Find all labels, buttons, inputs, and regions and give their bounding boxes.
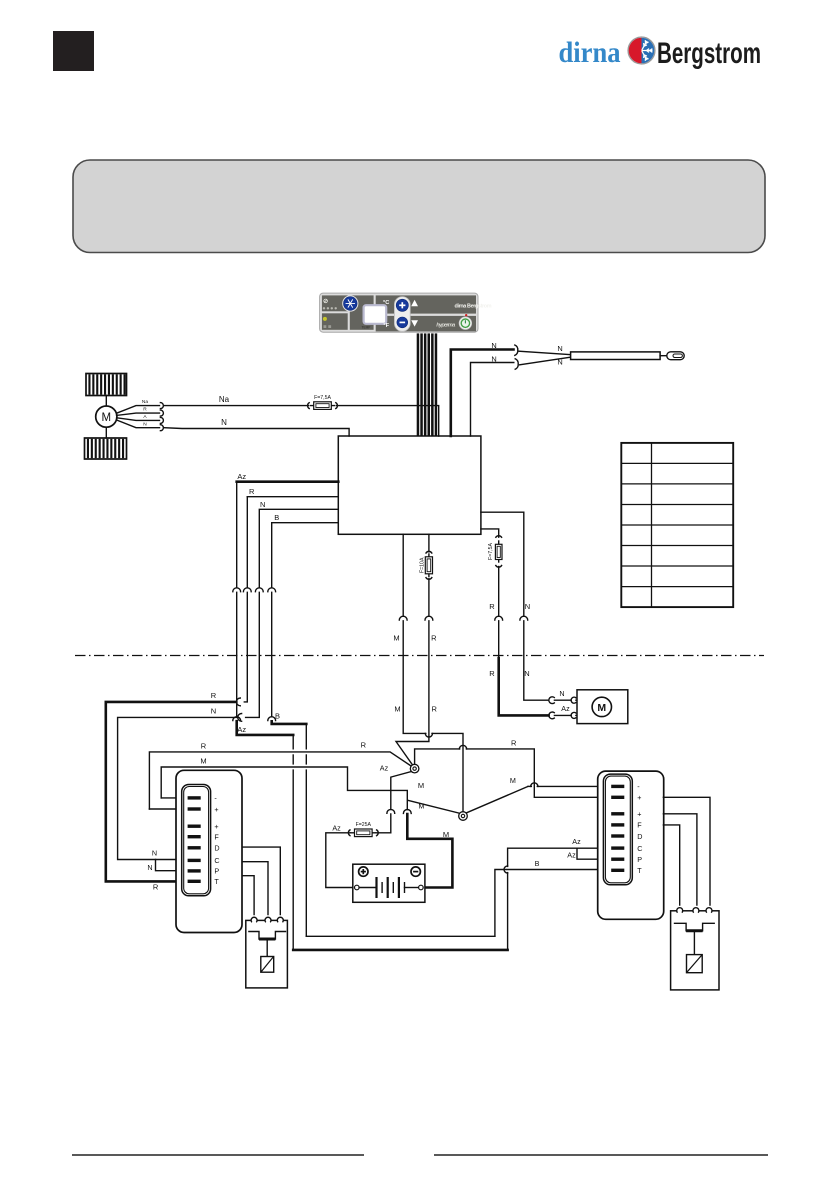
svg-text:F=25A: F=25A xyxy=(356,822,372,828)
svg-text:P: P xyxy=(637,855,642,864)
svg-text:M: M xyxy=(102,412,112,424)
svg-text:D: D xyxy=(637,832,642,841)
svg-text:°C: °C xyxy=(383,300,389,306)
svg-text:R: R xyxy=(431,634,437,643)
svg-text:M: M xyxy=(394,705,400,714)
svg-text:N: N xyxy=(559,689,564,698)
svg-text:Az: Az xyxy=(561,704,570,713)
svg-text:R: R xyxy=(153,882,159,891)
svg-text:P: P xyxy=(214,867,219,876)
svg-text:+: + xyxy=(214,822,218,831)
svg-text:F: F xyxy=(214,833,219,842)
svg-text:Az: Az xyxy=(380,764,389,773)
svg-text:N: N xyxy=(143,421,147,427)
svg-text:+: + xyxy=(637,793,641,802)
svg-text:A: A xyxy=(143,414,147,420)
svg-text:Na: Na xyxy=(142,399,148,405)
svg-text:R: R xyxy=(143,407,147,413)
svg-text:T: T xyxy=(214,877,219,886)
svg-text:F: F xyxy=(637,821,642,830)
svg-text:R: R xyxy=(201,741,207,750)
svg-text:F=7,5A: F=7,5A xyxy=(314,395,331,401)
svg-text:N: N xyxy=(491,354,496,363)
svg-text:Bergstrom: Bergstrom xyxy=(657,37,761,70)
svg-text:N: N xyxy=(557,358,562,367)
svg-text:R: R xyxy=(489,602,495,611)
svg-text:N: N xyxy=(211,707,216,716)
svg-text:dirna: dirna xyxy=(559,36,621,69)
svg-text:R: R xyxy=(361,741,367,750)
svg-text:R: R xyxy=(249,487,255,496)
svg-text:+: + xyxy=(214,805,218,814)
svg-text:N: N xyxy=(221,418,227,427)
svg-text:N: N xyxy=(147,863,152,872)
svg-text:N: N xyxy=(524,669,529,678)
svg-text:B: B xyxy=(274,513,279,522)
svg-text:M: M xyxy=(200,756,206,765)
svg-text:Az: Az xyxy=(332,823,341,832)
svg-text:D: D xyxy=(214,844,219,853)
svg-text:N: N xyxy=(152,849,157,858)
svg-text:Az: Az xyxy=(237,472,246,481)
svg-text:Az: Az xyxy=(237,725,246,734)
svg-text:M: M xyxy=(443,830,449,839)
svg-text:dirna Bergstrom: dirna Bergstrom xyxy=(455,303,492,309)
svg-text:B: B xyxy=(535,859,540,868)
svg-text:M: M xyxy=(597,702,606,714)
svg-text:Na: Na xyxy=(219,395,230,404)
svg-text:T: T xyxy=(637,866,642,875)
svg-text:R: R xyxy=(211,691,217,700)
svg-text:B: B xyxy=(275,712,280,721)
svg-text:C: C xyxy=(214,856,219,865)
svg-text:hyperma: hyperma xyxy=(436,322,456,328)
svg-text:F=7,5A: F=7,5A xyxy=(488,543,494,560)
svg-text:N: N xyxy=(260,500,265,509)
svg-text:+: + xyxy=(637,810,641,819)
svg-text:Az: Az xyxy=(567,850,576,859)
svg-text:M: M xyxy=(418,781,424,790)
svg-text:°F: °F xyxy=(383,323,389,329)
svg-text:M: M xyxy=(510,776,516,785)
svg-text:R: R xyxy=(431,705,437,714)
svg-text:TEMP: TEMP xyxy=(362,326,371,330)
svg-text:M: M xyxy=(393,634,399,643)
svg-text:C: C xyxy=(637,844,642,853)
svg-text:N: N xyxy=(557,344,562,353)
svg-text:R: R xyxy=(489,669,495,678)
svg-text:R: R xyxy=(511,739,517,748)
svg-text:Az: Az xyxy=(572,837,581,846)
svg-text:N: N xyxy=(491,341,496,350)
svg-text:F=10A: F=10A xyxy=(419,557,425,573)
svg-text:N: N xyxy=(525,602,530,611)
